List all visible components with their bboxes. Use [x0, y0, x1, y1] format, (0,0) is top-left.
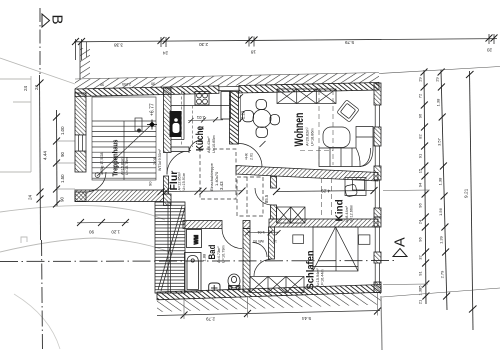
tiny dimension row above stairwell — [100, 82, 155, 87]
kitchen tall cupboard — [221, 92, 231, 120]
top dimension line — [74, 34, 497, 60]
svg-text:+6.77: +6.77 — [150, 103, 156, 116]
svg-text:5.44: 5.44 — [302, 316, 311, 321]
stairwell left wall — [75, 93, 86, 202]
svg-text:9.21: 9.21 — [464, 188, 470, 198]
left neighbour label 24 — [23, 85, 28, 91]
level marker +6.77 — [147, 103, 157, 129]
svg-text:29: 29 — [418, 76, 423, 81]
kitchen interior dimension marks — [188, 115, 223, 131]
svg-text:WM: WM — [194, 234, 200, 244]
living room dashed lines — [300, 90, 333, 218]
svg-text:4.29: 4.29 — [321, 188, 330, 193]
right extension stub near bottom — [383, 283, 428, 286]
apartment entry door arc — [167, 151, 191, 175]
right dimension line 2 — [435, 69, 450, 311]
svg-text:Kind: Kind — [335, 199, 346, 221]
right exterior wall — [374, 83, 381, 293]
svg-text:2.01: 2.01 — [196, 115, 205, 120]
bath top wall — [183, 221, 250, 229]
window in top wall over kitchen — [219, 86, 239, 94]
svg-text:U=10.85m: U=10.85m — [212, 135, 216, 153]
hatched stub above stairwell corner — [80, 42, 90, 79]
svg-text:24: 24 — [34, 84, 39, 90]
bottom dimension line — [157, 293, 381, 322]
svg-text:94: 94 — [418, 182, 423, 187]
svg-text:1.00: 1.00 — [60, 126, 65, 135]
landing rail detail — [135, 118, 142, 132]
corridor door arc — [253, 243, 268, 258]
top right extension line — [379, 67, 500, 74]
svg-text:U=12.66m: U=12.66m — [350, 205, 354, 223]
left dimension line L2 — [53, 110, 75, 208]
child room door arc — [255, 188, 272, 205]
upper stair flight — [92, 97, 156, 180]
svg-text:90: 90 — [60, 152, 65, 157]
main top exterior wall inner band left — [75, 86, 219, 97]
neighbour faint arcs bottom-left — [14, 294, 60, 349]
svg-text:72: 72 — [418, 93, 423, 98]
dining table — [243, 100, 280, 138]
wall between kitchen hall and living room — [230, 92, 239, 145]
svg-text:1.39: 1.39 — [439, 235, 444, 244]
svg-text:1.20: 1.20 — [111, 230, 120, 235]
svg-text:90: 90 — [60, 197, 65, 202]
section line A — [0, 261, 395, 262]
hall mini dimension line — [158, 188, 246, 196]
svg-text:Bad: Bad — [206, 245, 217, 260]
room label living — [294, 113, 315, 147]
svg-text:20: 20 — [486, 48, 492, 53]
svg-text:90: 90 — [89, 230, 94, 235]
svg-text:96: 96 — [418, 236, 423, 241]
svg-text:Treppenhaus: Treppenhaus — [112, 139, 120, 176]
bath corridor wall — [243, 229, 250, 293]
svg-text:90: 90 — [100, 83, 104, 87]
svg-text:96: 96 — [418, 202, 423, 207]
svg-text:2.79: 2.79 — [206, 317, 215, 322]
bed — [313, 227, 358, 271]
svg-text:1.38: 1.38 — [435, 98, 440, 107]
nightstand left — [293, 235, 304, 244]
svg-text:4.44: 4.44 — [43, 151, 48, 160]
ground hatch band below building — [157, 292, 381, 312]
bottom right extension line — [382, 288, 500, 297]
svg-text:A=8.44m²: A=8.44m² — [345, 205, 349, 222]
wohnen wall mini dimension — [238, 94, 246, 123]
child room dimension line — [273, 187, 378, 195]
kitchen counter — [171, 92, 230, 140]
svg-text:15: 15 — [418, 168, 423, 173]
section marker A triangle — [393, 237, 409, 257]
svg-text:21: 21 — [418, 299, 423, 304]
svg-text:B: B — [49, 15, 66, 25]
svg-text:2.01: 2.01 — [250, 153, 254, 160]
right extension stub at divider — [383, 189, 430, 192]
main top exterior wall inner band right — [239, 83, 379, 94]
toilet — [228, 274, 240, 290]
svg-text:U=10.79m: U=10.79m — [222, 245, 226, 263]
svg-text:91: 91 — [418, 153, 423, 158]
svg-text:85.5: 85.5 — [264, 194, 269, 203]
sofa — [319, 127, 373, 167]
svg-text:82: 82 — [418, 133, 423, 138]
child room desk — [344, 178, 366, 198]
lower stair flight — [155, 202, 185, 293]
svg-text:3.43: 3.43 — [219, 181, 224, 190]
svg-text:24: 24 — [28, 194, 33, 200]
svg-text:24: 24 — [162, 51, 168, 56]
stairwell entry door arc — [86, 172, 106, 192]
attic ladder dashed rect — [200, 149, 236, 199]
stairwell lower mini dimension line — [77, 219, 129, 235]
child room west wall — [271, 177, 277, 220]
svg-text:Schlafen: Schlafen — [305, 250, 316, 289]
svg-text:3.57: 3.57 — [436, 137, 441, 146]
bathtub — [185, 253, 202, 293]
right wall windows — [375, 105, 379, 284]
svg-text:Wohnen: Wohnen — [294, 113, 306, 147]
svg-text:91: 91 — [418, 270, 423, 275]
svg-text:WB 93: WB 93 — [253, 239, 264, 243]
side table diamond — [337, 100, 359, 122]
nightstand right — [359, 235, 370, 244]
svg-text:16: 16 — [273, 239, 277, 243]
kitchen dashed cabinet line — [182, 92, 193, 148]
kitchen sink dark unit — [170, 111, 182, 137]
bedroom wardrobe — [250, 277, 304, 293]
svg-text:90: 90 — [151, 82, 155, 86]
left dimension line L1 — [28, 75, 48, 240]
kitchen door arc — [189, 140, 202, 153]
attic ladder label — [209, 162, 224, 191]
child room wardrobe — [277, 207, 306, 223]
svg-text:A=12.85m²: A=12.85m² — [178, 171, 182, 190]
boundary line below building going off page — [381, 296, 382, 350]
svg-text:WT3d 9.53m²: WT3d 9.53m² — [158, 148, 162, 171]
armchair — [323, 127, 350, 148]
svg-text:1.01: 1.01 — [256, 230, 265, 235]
svg-text:U=15.78m: U=15.78m — [125, 157, 129, 175]
svg-text:1.38: 1.38 — [437, 177, 442, 186]
stove — [195, 92, 209, 106]
svg-text:A: A — [393, 237, 409, 247]
corridor mini dimension — [245, 194, 281, 243]
svg-text:U=16.44m: U=16.44m — [321, 269, 325, 287]
svg-text:A=20.82m²: A=20.82m² — [306, 127, 310, 146]
svg-text:U=18.86m: U=18.86m — [311, 128, 315, 146]
right dimension line 3 — [464, 71, 477, 330]
svg-text:18Stg 17,5/28: 18Stg 17,5/28 — [100, 153, 104, 175]
svg-text:90: 90 — [199, 126, 204, 131]
stairwell bottom wall — [75, 190, 164, 202]
wohnen door tiny texts — [245, 141, 266, 160]
svg-text:1.56: 1.56 — [438, 207, 443, 216]
section marker B triangle — [42, 14, 66, 27]
svg-text:U=15.91m: U=15.91m — [182, 173, 186, 191]
svg-text:29: 29 — [435, 76, 440, 81]
svg-text:3.38: 3.38 — [114, 43, 123, 48]
room label child — [335, 199, 354, 222]
svg-text:5.79: 5.79 — [345, 40, 354, 45]
main left wall — [164, 88, 172, 206]
stairwell left wall window — [75, 135, 86, 151]
svg-text:A=4.73m²: A=4.73m² — [217, 246, 221, 263]
bath sink — [209, 283, 220, 292]
bathtub dim text 1.88 — [202, 253, 207, 262]
svg-text:2.01: 2.01 — [152, 156, 157, 165]
stairwell label — [100, 139, 129, 176]
washing machine — [187, 230, 202, 248]
top dimension ticks — [72, 35, 498, 46]
bath door arc — [222, 229, 242, 249]
svg-text:18: 18 — [250, 50, 256, 55]
svg-text:2.23: 2.23 — [241, 110, 246, 119]
right dimension line 1 — [418, 69, 430, 305]
svg-text:90: 90 — [148, 181, 153, 186]
bedroom west wall — [269, 227, 275, 259]
svg-text:1.50: 1.50 — [60, 174, 65, 183]
kitchen hall thin wall — [171, 147, 189, 152]
room label kitchen — [193, 126, 216, 153]
main top exterior wall outer band — [75, 73, 379, 90]
room label bath — [206, 245, 225, 263]
svg-text:A=15.94m²: A=15.94m² — [316, 268, 320, 287]
room label bedroom — [305, 250, 324, 289]
svg-text:«HK: «HK — [245, 152, 249, 160]
svg-text:2.30: 2.30 — [199, 42, 208, 47]
bedroom door arc — [254, 260, 271, 277]
bottom exterior wall — [157, 285, 381, 300]
living room south divider wall — [236, 166, 378, 182]
svg-text:A=6.43m²: A=6.43m² — [207, 136, 211, 153]
duct dashed rect — [237, 177, 263, 216]
room label hall — [168, 171, 186, 191]
svg-text:32: 32 — [418, 254, 423, 259]
neighbour building faint outline top-left — [0, 58, 75, 172]
svg-text:24: 24 — [23, 85, 28, 91]
section line B — [40, 8, 43, 349]
svg-text:2.79: 2.79 — [440, 270, 445, 279]
child bedroom divider wall — [269, 219, 378, 227]
hall left tiny texts — [148, 148, 163, 186]
svg-text:24: 24 — [418, 219, 423, 224]
svg-text:A=15.81m²: A=15.81m² — [121, 156, 125, 175]
svg-text:2.255: 2.255 — [122, 82, 131, 86]
neighbour faint driveway curves — [0, 206, 172, 253]
top dimension labels (upside down) — [114, 40, 492, 55]
living room door arc — [239, 144, 263, 168]
svg-text:96: 96 — [418, 113, 423, 118]
living room sideboard — [277, 89, 336, 104]
